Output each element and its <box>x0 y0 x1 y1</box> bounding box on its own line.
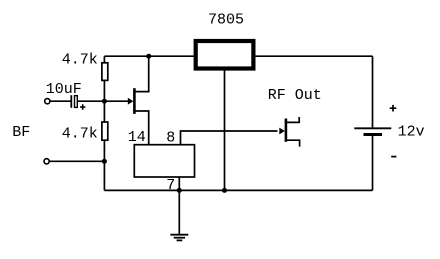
svg-text:RF Out: RF Out <box>268 87 322 104</box>
terminal input upper <box>45 99 50 104</box>
label - (battery) <box>391 156 396 158</box>
wire top-left horizontal (node to 7805 input) <box>104 55 194 57</box>
wire node A to transistor base (arrow) <box>104 100 129 102</box>
svg-text:4.7k: 4.7k <box>62 51 98 68</box>
svg-text:10uF: 10uF <box>46 81 82 98</box>
transistor Q1 <box>128 88 135 114</box>
svg-text:7: 7 <box>166 177 175 194</box>
svg-text:8: 8 <box>166 130 175 147</box>
svg-text:12v: 12v <box>398 123 425 140</box>
RF Out connector J1 <box>279 117 299 147</box>
wire lower input terminal to node B <box>49 160 104 162</box>
wire ground stem <box>178 190 180 234</box>
svg-text:4.7k: 4.7k <box>62 126 98 143</box>
wire left vertical bus <box>103 56 105 190</box>
wire input terminal to capacitor <box>50 100 71 102</box>
junction 7805 gnd / ground bus <box>222 188 227 193</box>
wire IC pin 7 to ground bus <box>178 177 180 190</box>
wire IC pin 8 to RF Out (arrow) <box>181 131 278 145</box>
resistor R2 4.7k <box>102 122 108 140</box>
wire transistor emitter to IC pin 14 <box>135 111 149 145</box>
wire top-right horizontal (7805 output to battery +) <box>256 55 373 57</box>
capacitor C1 10uF <box>70 95 85 110</box>
svg-text:BF: BF <box>12 124 30 141</box>
ground <box>170 235 188 241</box>
wire capacitor to node A <box>78 100 105 102</box>
junction top rail / collector <box>146 54 151 59</box>
wire right vertical (battery - lead) <box>372 135 374 191</box>
wire 7805 ground pin <box>224 71 226 191</box>
wire transistor collector to top rail <box>135 56 149 91</box>
wire right vertical (battery + lead) <box>372 56 374 128</box>
wire bottom ground bus <box>104 189 372 191</box>
svg-text:7805: 7805 <box>208 11 244 28</box>
svg-text:14: 14 <box>128 129 146 146</box>
junction node A <box>102 99 107 104</box>
terminal input lower <box>44 159 49 164</box>
junction pin7 / ground <box>177 188 182 193</box>
junction node B <box>102 159 107 164</box>
label + (battery) <box>390 105 397 112</box>
resistor R1 4.7k <box>102 63 108 81</box>
IC U2 <box>134 145 194 177</box>
battery BT1 12v <box>354 128 391 134</box>
regulator U1 7805 <box>196 41 254 69</box>
